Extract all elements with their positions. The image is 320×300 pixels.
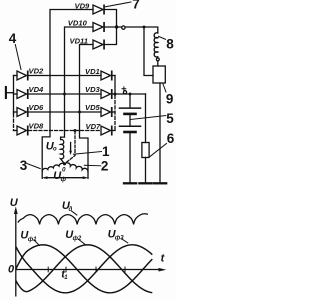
- terminal circle plus output: [123, 91, 126, 94]
- svg-text:VD10: VD10: [68, 18, 88, 27]
- diode VD6: [14, 111, 18, 113]
- terminal circle below field winding: [156, 58, 159, 61]
- svg-text:VD3: VD3: [85, 85, 101, 94]
- resistor R load 6: [145, 94, 147, 143]
- node star point 0: [63, 162, 66, 165]
- ground (battery): [124, 182, 136, 184]
- leader Uf2: [78, 239, 85, 245]
- diode VD11: [93, 40, 103, 49]
- svg-text:VD8: VD8: [29, 121, 45, 130]
- curve phase 3 sine: [16, 245, 153, 293]
- svg-text:1: 1: [64, 275, 68, 281]
- axis U (vertical): [15, 210, 17, 297]
- diode VD4: [14, 93, 18, 95]
- svg-text:VD4: VD4: [29, 85, 45, 94]
- wire plus node line: [115, 93, 146, 95]
- diode VD2: [14, 75, 18, 77]
- svg-text:5: 5: [166, 111, 174, 126]
- arrow U0: [70, 143, 72, 152]
- battery GB 5: [129, 94, 131, 107]
- diode VD1: [101, 71, 111, 80]
- svg-text:ф: ф: [61, 176, 67, 183]
- node row3-phaseC: [78, 111, 81, 114]
- svg-text:1: 1: [102, 144, 110, 159]
- terminal circle (field output): [122, 26, 125, 29]
- arrow Uf dimension: [45, 177, 86, 179]
- diode VD7: [101, 126, 111, 135]
- generator stator winding left phase: [42, 163, 64, 171]
- wire row 4 neutral (dashed): [29, 130, 101, 132]
- GRAPH: [14, 207, 166, 297]
- axis t (horizontal): [16, 269, 162, 271]
- svg-text:VD9: VD9: [75, 1, 91, 10]
- node battery tap: [129, 93, 132, 96]
- wire negative bus (left): [13, 76, 15, 115]
- svg-text:д: д: [69, 207, 73, 213]
- svg-text:VD7: VD7: [86, 122, 102, 131]
- leader label5: [131, 116, 166, 120]
- wire regulator left pin: [144, 27, 153, 76]
- curve Ud rectified envelope: [18, 214, 148, 225]
- curve phase 1 sine: [16, 245, 153, 293]
- wire positive bus (right): [114, 76, 116, 96]
- leader label1: [74, 152, 102, 155]
- leader label8: [159, 36, 166, 39]
- svg-text:0: 0: [8, 263, 15, 275]
- curve phase 2 sine: [16, 245, 153, 293]
- svg-text:6: 6: [167, 131, 175, 146]
- svg-text:4: 4: [9, 31, 17, 46]
- tick 4: [124, 267, 126, 273]
- tick t1 right: [65, 267, 67, 273]
- svg-text:ф3: ф3: [115, 235, 124, 242]
- tick 3: [95, 267, 97, 273]
- wire VD10 cathode row with terminal: [105, 27, 158, 33]
- leader label2: [84, 164, 101, 167]
- svg-text:7: 7: [132, 0, 140, 11]
- inductor L field winding 8: [154, 33, 158, 57]
- ground (regulator): [154, 182, 166, 184]
- node field bus junction: [115, 25, 118, 28]
- node row2-phaseB: [63, 93, 66, 96]
- leader label4: [15, 45, 21, 70]
- svg-text:o: o: [53, 147, 57, 153]
- leader label3: [27, 164, 40, 169]
- svg-text:t: t: [161, 253, 166, 265]
- wire row 1 (phase A row): [29, 75, 101, 77]
- wire VD9 cathode to field bus: [105, 10, 117, 28]
- ground (load): [139, 182, 151, 184]
- plus sign: [122, 87, 126, 91]
- svg-text:8: 8: [166, 36, 174, 51]
- svg-text:ф2: ф2: [73, 235, 82, 242]
- svg-text:0: 0: [62, 166, 66, 173]
- wire phase B (from VD10 bracket down to middle winding): [61, 27, 93, 137]
- wire neutral dashed to star point: [67, 131, 76, 162]
- terminal minus output: [5, 87, 7, 98]
- wire phase A (from VD9 bracket down through matrix to generator left terminal): [42, 10, 93, 179]
- svg-text:VD1: VD1: [85, 67, 100, 76]
- svg-text:ф1: ф1: [28, 236, 37, 243]
- leader label7: [106, 2, 132, 7]
- voltage regulator U9 box: [153, 66, 165, 83]
- diode VD8: [14, 130, 18, 132]
- wire phase C (from VD11 bracket down to generator right terminal): [80, 45, 94, 179]
- node row4-neutral: [74, 129, 77, 132]
- wire regulator to ground: [159, 83, 161, 182]
- leader Uf1: [34, 240, 40, 246]
- wire row 2 (phase B row): [29, 93, 101, 95]
- diode VD9: [93, 5, 103, 14]
- svg-text:VD6: VD6: [29, 103, 45, 112]
- tick t1 left: [47, 267, 49, 273]
- svg-text:3: 3: [20, 158, 28, 173]
- wire row 3 (phase C row): [29, 111, 101, 113]
- leader label9: [163, 84, 166, 92]
- generator stator winding middle (vertical): [61, 137, 65, 164]
- svg-text:VD11: VD11: [70, 36, 88, 45]
- generator stator winding right phase: [65, 163, 89, 172]
- diode VD3: [101, 90, 111, 99]
- leader Uf3: [121, 238, 128, 243]
- node plus bus junction: [114, 93, 117, 96]
- wire VD11 cathode to field bus: [105, 27, 117, 45]
- svg-text:VD5: VD5: [85, 103, 101, 112]
- svg-text:9: 9: [166, 92, 174, 107]
- node regulator tap: [143, 26, 146, 29]
- leader label6: [150, 144, 167, 157]
- svg-text:U: U: [10, 197, 19, 209]
- svg-text:2: 2: [101, 159, 109, 174]
- diode VD5: [101, 108, 111, 117]
- svg-text:VD2: VD2: [29, 67, 45, 76]
- diode VD10: [93, 23, 103, 32]
- leader Ud label: [71, 211, 77, 216]
